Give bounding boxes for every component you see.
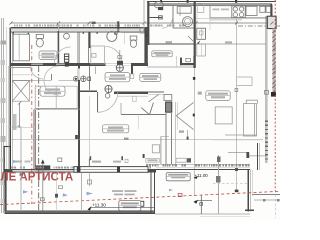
top wall columns (dark ticks): [92, 0, 238, 32]
vestibule left wall: [144, 28, 147, 66]
kitchen counter: [196, 6, 272, 19]
tall unit living: [244, 100, 258, 136]
terrace right wall: [151, 170, 155, 214]
bottom right dim lines: [252, 190, 280, 218]
+11.30 mark: [88, 203, 156, 211]
top dimension line: [11, 22, 272, 24]
wall stub left of vestibule wall: [140, 28, 144, 33]
red dashed vertical right: [274, 0, 276, 191]
bathC toilet: [130, 36, 137, 47]
bathB shower glass edge: [77, 33, 79, 64]
red dashed section line vertical left: [31, 45, 33, 204]
bathroom divider wall 2: [88, 32, 90, 49]
bottom main wall with windows: [4, 169, 156, 172]
left outer wall: [10, 28, 12, 173]
wall bedroom2 to column: [121, 114, 166, 116]
bed bedroom1: [35, 86, 77, 108]
living bottom window wall: [146, 155, 250, 214]
WC1 door box: [159, 16, 163, 19]
long vertical line x194: [193, 68, 195, 196]
dim ticks top wall: [10, 22, 274, 25]
dark window box on wall: [35, 165, 50, 170]
wall below hatched column: [166, 112, 171, 164]
bathC shelf line: [122, 32, 144, 34]
kitchen right wall: [270, 5, 272, 17]
tick under bottom wall: [20, 173, 23, 176]
bottom mid dim line: [155, 213, 250, 215]
note text above terrace label: [112, 190, 137, 195]
bathB radiator: [64, 54, 68, 62]
kitchen bar line: [209, 18, 211, 30]
WC2 washbox: [177, 7, 191, 14]
cabinet near entrance top: [197, 3, 204, 12]
bedroom window frame on bottom wall: [74, 96, 148, 186]
label box living: [198, 91, 230, 101]
vestibule bottom wall: [147, 43, 196, 45]
small dark sockets on walls: [65, 34, 147, 140]
bedroom1 bottom wall: [34, 107, 80, 109]
dim marks kitchen box: [179, 130, 184, 132]
terrace bottom wall: [4, 211, 155, 213]
dining table living: [215, 107, 232, 124]
bathA label box: [39, 51, 57, 59]
left wall inner line: [8, 66, 10, 170]
+11.00 leader arrow: [194, 176, 198, 179]
sofa lines living: [212, 135, 266, 156]
axis dash-dot right top: [238, 25, 280, 27]
bedroom2 left wall: [33, 110, 35, 171]
bathroom divider continuation: [88, 66, 90, 90]
balcony door right: [257, 143, 259, 170]
label box bedroom2: [102, 125, 128, 133]
kitchen/entrance wall vertical: [194, 2, 196, 68]
+11.00 mark: [194, 173, 213, 214]
window mullion ticks right: [265, 121, 268, 160]
entrance door diagonal: [188, 36, 193, 41]
svg-text:+11.30: +11.30: [92, 203, 106, 208]
window hinge ticks: [13, 32, 98, 34]
entrance cabinet box: [197, 28, 206, 56]
dim boxes on wall: [146, 158, 191, 162]
bathC vanity edge: [123, 33, 125, 45]
WC2 shower circle: [183, 17, 193, 27]
top dimension text band: [14, 25, 195, 27]
bathB sink: [64, 33, 70, 39]
bathA toilet: [36, 34, 43, 47]
long vertical line x236.5: [236, 19, 238, 192]
bathC shower cabin: [91, 46, 105, 64]
bathC big sink: [107, 31, 118, 41]
WC1 bottom wall: [150, 17, 162, 19]
kitchen counter front dim line: [210, 19, 242, 21]
left wall column: [4, 147, 10, 173]
red dashed sloped horizontal: [0, 191, 280, 204]
bedroom1 window center line: [18, 33, 20, 56]
left dimension lines: [1, 18, 17, 213]
kitchen sink: [246, 6, 271, 15]
bathroom divider wall 1: [58, 31, 60, 63]
corridor bottom edge line: [147, 66, 194, 68]
long horizontal line y139.6: [11, 139, 264, 141]
label box bathC (in corridor): [105, 72, 134, 81]
corridor left wall (bedroom1 right wall): [78, 66, 80, 170]
double door leaves: [176, 103, 193, 116]
WC divider: [172, 6, 174, 28]
bedroom1 door arc: [44, 66, 58, 95]
shaft duct box top right: [267, 16, 276, 28]
label box bedroom1: [40, 86, 65, 96]
red dotted axis vertical left2: [34, 85, 36, 171]
top protrusion edge: [147, 2, 276, 6]
bathB door arc: [55, 47, 71, 63]
upper right cabinet: [237, 77, 252, 86]
faint dashes right: [213, 183, 247, 185]
terrace dim arrow: [41, 158, 63, 211]
kitchen box partition lines: [175, 102, 177, 164]
right window double line: [266, 16, 268, 163]
black axis dash-dot vertical: [38, 66, 40, 214]
bedroom1 top line: [12, 79, 51, 81]
svg-text:+11.00: +11.00: [195, 173, 209, 178]
stove burners: [232, 6, 245, 18]
bedroom2 door arc: [98, 92, 118, 112]
svg-text:ЛЕ АРТИСТА: ЛЕ АРТИСТА: [1, 172, 74, 184]
hatched column mid: [166, 102, 172, 112]
dark box marker bottom left of terrace wall: [140, 201, 144, 206]
bathC door arc: [106, 47, 122, 63]
interior wall bathrooms bottom: [10, 63, 148, 74]
left strip closet lines: [12, 127, 34, 129]
label box corridor: [140, 73, 161, 81]
vestibule L-wall dark: [180, 63, 195, 65]
WC2 divider: [179, 7, 181, 16]
corridor jamb line: [95, 67, 97, 75]
closet with X bedroom1: [12, 75, 30, 101]
extension line x144 top: [143, 0, 145, 28]
bottom dim text band: [11, 167, 151, 169]
bedroom1 top edge line: [9, 67, 30, 69]
top wall of left block: [11, 28, 148, 32]
WC1 door arc: [162, 18, 173, 29]
vent symbols corridor: [105, 71, 121, 98]
label box vestibule: [152, 51, 172, 57]
vent symbols at bathC door: [116, 50, 123, 71]
niche near kitchen box: [143, 136, 169, 164]
marker box on right line: [265, 90, 269, 94]
extension line x58.5: [57, 22, 59, 31]
folding door bedroom2/living: [141, 103, 153, 115]
corridor electrical symbols: [73, 76, 90, 82]
WC2 bottom wall: [173, 27, 194, 29]
bedroom2 dim specks: [14, 159, 128, 162]
red small box marker: [178, 193, 182, 196]
bottom right wall vertical: [248, 169, 252, 211]
right dark wall strip: [272, 29, 275, 97]
bathA bathtub: [13, 34, 29, 61]
bedroom1 dim line vertical: [18, 102, 21, 129]
terrace left wall: [4, 172, 6, 213]
label box kitchen-box bottom: [166, 173, 190, 181]
label box terrace: [119, 201, 141, 211]
WC1 basin: [154, 2, 164, 11]
corridor bottom wall + bedroom2 door: [80, 90, 164, 94]
bathA door arc: [30, 66, 43, 79]
bedroom2 door leaf: [97, 92, 99, 112]
terrace interior lines: [21, 173, 82, 212]
bottom right terrace bottom: [245, 209, 254, 211]
blue arrows: [13, 160, 173, 197]
